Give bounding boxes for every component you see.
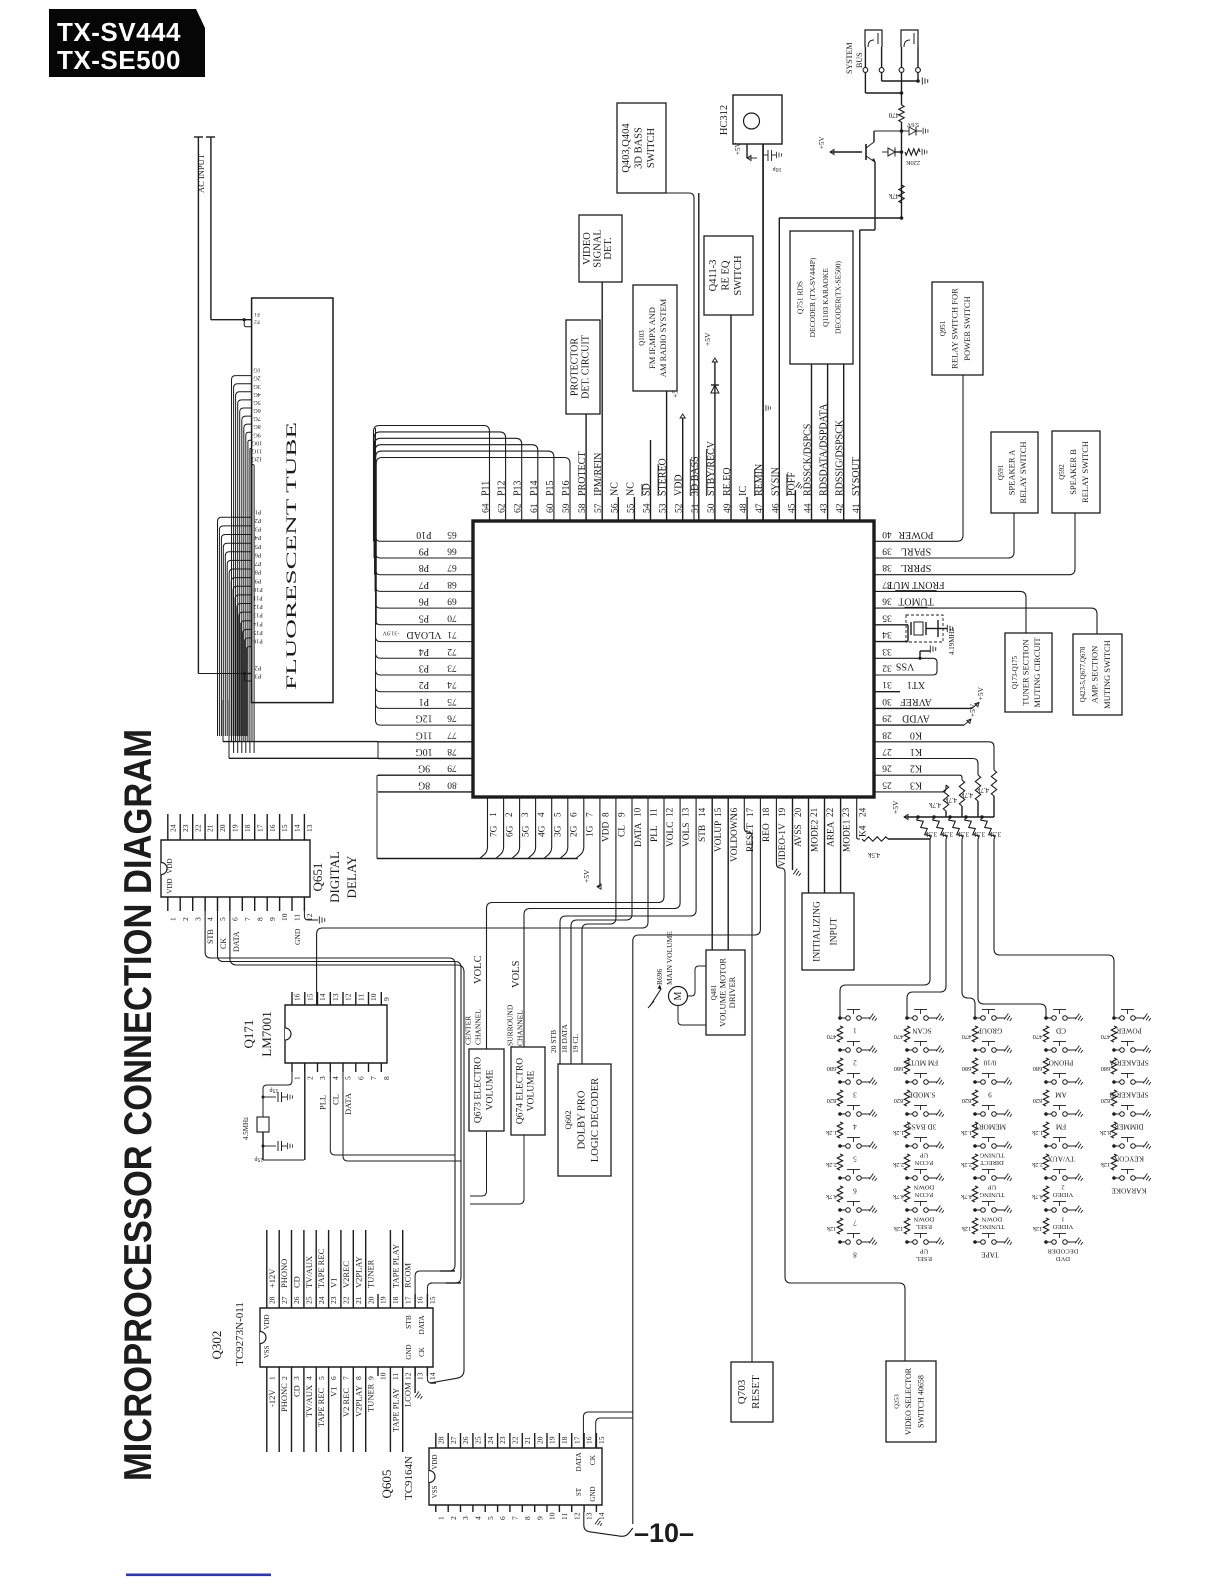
svg-text:Q592: Q592 (1058, 464, 1066, 480)
svg-text:R696: R696 (655, 968, 664, 985)
svg-text:RELAY SWITCH: RELAY SWITCH (1080, 441, 1090, 503)
svg-text:4.7k: 4.7k (1031, 1193, 1043, 1200)
svg-text:P7: P7 (419, 579, 430, 590)
svg-text:19: 19 (379, 1296, 388, 1304)
svg-text:16: 16 (268, 824, 277, 832)
svg-text:23: 23 (841, 807, 851, 817)
svg-text:51: 51 (691, 503, 701, 513)
svg-text:3: 3 (318, 1076, 327, 1080)
svg-text:V2REC: V2REC (341, 1261, 351, 1288)
svg-text:3: 3 (292, 1376, 301, 1380)
svg-text:680: 680 (962, 1065, 972, 1072)
svg-text:18 DATA: 18 DATA (560, 1024, 569, 1053)
svg-text:4: 4 (305, 1376, 314, 1380)
svg-text:76: 76 (447, 713, 457, 723)
svg-text:IPM/RFIN: IPM/RFIN (593, 453, 604, 496)
svg-text:14: 14 (318, 993, 327, 1001)
svg-text:12k: 12k (826, 1225, 837, 1232)
svg-text:TAPE REC: TAPE REC (316, 1387, 326, 1427)
svg-text:Q423-5,Q677,Q678: Q423-5,Q677,Q678 (1079, 646, 1087, 702)
svg-text:5.6V: 5.6V (906, 121, 919, 128)
svg-text:24: 24 (317, 1296, 326, 1304)
svg-text:5: 5 (552, 812, 562, 817)
svg-text:62: 62 (514, 503, 524, 513)
svg-text:34: 34 (882, 629, 892, 639)
svg-text:Q403,Q404: Q403,Q404 (621, 123, 632, 173)
svg-text:9: 9 (988, 1091, 992, 1099)
svg-text:TV/AUX: TV/AUX (304, 1385, 314, 1417)
svg-text:20: 20 (535, 1436, 544, 1444)
svg-text:12: 12 (403, 1372, 412, 1380)
svg-text:24: 24 (486, 1436, 495, 1444)
svg-text:70: 70 (447, 612, 457, 622)
svg-text:TAPE PLAY: TAPE PLAY (390, 1388, 400, 1432)
svg-text:P.CON: P.CON (915, 1159, 934, 1166)
svg-text:6G: 6G (505, 825, 515, 837)
svg-text:23: 23 (498, 1436, 507, 1444)
svg-text:18: 18 (761, 807, 771, 817)
svg-text:4G: 4G (253, 391, 261, 398)
svg-text:6: 6 (231, 917, 240, 921)
svg-text:+5V: +5V (582, 869, 591, 883)
svg-text:12G: 12G (251, 456, 262, 463)
svg-text:P9: P9 (255, 577, 262, 584)
svg-text:820: 820 (1101, 1097, 1111, 1104)
svg-text:8: 8 (255, 917, 264, 921)
svg-text:10: 10 (633, 807, 643, 817)
svg-text:11: 11 (293, 914, 302, 921)
svg-text:2.2k: 2.2k (892, 1161, 904, 1168)
svg-text:V2PLAY: V2PLAY (353, 1385, 363, 1417)
svg-text:STBY/RECV: STBY/RECV (706, 440, 717, 496)
svg-text:21: 21 (809, 807, 819, 817)
svg-text:72: 72 (447, 646, 457, 656)
svg-text:2: 2 (280, 1376, 289, 1380)
svg-text:3G: 3G (253, 383, 261, 390)
svg-text:SWITCH: SWITCH (733, 255, 744, 296)
svg-text:P12: P12 (253, 603, 263, 610)
svg-text:42: 42 (836, 503, 846, 513)
svg-text:21: 21 (354, 1296, 363, 1304)
svg-text:8G: 8G (418, 779, 430, 790)
svg-text:DET.: DET. (603, 237, 614, 259)
svg-text:P1: P1 (419, 696, 430, 707)
svg-text:14: 14 (428, 1372, 437, 1380)
svg-text:1.2k: 1.2k (825, 1129, 837, 1136)
svg-text:GROUP: GROUP (978, 1027, 1002, 1035)
svg-text:TX-SV444: TX-SV444 (57, 17, 181, 47)
svg-text:680: 680 (894, 1065, 904, 1072)
svg-text:K1: K1 (910, 746, 922, 757)
svg-text:470: 470 (888, 111, 899, 119)
svg-text:680: 680 (1033, 1065, 1043, 1072)
svg-text:VOLUME: VOLUME (485, 1069, 495, 1110)
svg-text:12G: 12G (415, 713, 432, 724)
svg-text:33: 33 (882, 646, 892, 656)
svg-text:Q651: Q651 (310, 863, 325, 892)
svg-text:LM7001: LM7001 (259, 1011, 274, 1057)
svg-text:P5: P5 (255, 543, 262, 550)
svg-text:RELAY SWITCH: RELAY SWITCH (1018, 442, 1028, 504)
svg-text:15: 15 (597, 1436, 606, 1444)
svg-text:21: 21 (206, 824, 215, 832)
svg-text:DELAY: DELAY (344, 855, 359, 898)
svg-text:VIDEO-1V: VIDEO-1V (778, 823, 788, 867)
svg-text:STB: STB (206, 929, 215, 944)
svg-text:3D BASS: 3D BASS (634, 127, 645, 169)
svg-text:CK: CK (219, 938, 228, 949)
svg-text:LOGIC DECODER: LOGIC DECODER (590, 1078, 601, 1162)
svg-text:26: 26 (461, 1436, 470, 1444)
svg-text:8: 8 (382, 1076, 391, 1080)
svg-text:18: 18 (391, 1296, 400, 1304)
svg-text:0/10: 0/10 (983, 1059, 996, 1067)
svg-text:54: 54 (643, 503, 653, 513)
svg-text:6: 6 (853, 1187, 857, 1195)
svg-text:6: 6 (568, 812, 578, 817)
svg-text:3.3k: 3.3k (988, 830, 1001, 838)
svg-text:POWER SWITCH: POWER SWITCH (962, 296, 972, 360)
svg-text:UP: UP (919, 1248, 928, 1255)
svg-text:DATA: DATA (232, 931, 241, 952)
svg-text:P12: P12 (497, 480, 508, 496)
svg-text:470: 470 (894, 1033, 904, 1040)
svg-text:45: 45 (787, 503, 797, 513)
svg-text:P.SEL: P.SEL (916, 1223, 932, 1230)
svg-text:V2 REC: V2 REC (341, 1388, 351, 1417)
svg-text:MICROPROCESSOR CONNECTION DI: MICROPROCESSOR CONNECTION DIAGRAM (117, 729, 160, 1481)
svg-text:TV/AUX: TV/AUX (1047, 1155, 1075, 1163)
svg-text:55: 55 (626, 503, 636, 513)
svg-text:AMP. SECTION: AMP. SECTION (1090, 646, 1100, 704)
svg-text:4.7k: 4.7k (928, 801, 941, 809)
svg-text:DVD: DVD (1056, 1255, 1071, 1262)
svg-text:1.2k: 1.2k (1031, 1129, 1043, 1136)
svg-text:P16: P16 (253, 638, 263, 645)
svg-text:73: 73 (447, 663, 457, 673)
svg-text:ST: ST (575, 1487, 583, 1496)
svg-text:SWITCH 40658: SWITCH 40658 (917, 1375, 926, 1428)
svg-text:25: 25 (882, 779, 892, 789)
svg-text:15: 15 (280, 824, 289, 832)
svg-text:8: 8 (354, 1376, 363, 1380)
svg-text:11: 11 (356, 994, 365, 1001)
svg-text:PLL: PLL (650, 825, 660, 842)
svg-text:22: 22 (342, 1296, 351, 1304)
svg-text:17: 17 (745, 807, 755, 817)
svg-text:AM: AM (1055, 1091, 1067, 1099)
svg-text:SYSOUT: SYSOUT (851, 457, 862, 496)
svg-text:3.3k: 3.3k (924, 830, 937, 838)
svg-text:RCOM: RCOM (403, 1263, 413, 1288)
svg-text:80: 80 (447, 779, 457, 789)
svg-text:SPARL: SPARL (901, 546, 931, 557)
svg-text:15: 15 (713, 807, 723, 817)
svg-text:3.3k: 3.3k (972, 830, 985, 838)
svg-text:SPEAKER A: SPEAKER A (1007, 449, 1017, 495)
svg-text:-12V: -12V (267, 1389, 277, 1407)
svg-text:1: 1 (488, 812, 498, 817)
svg-text:RE EQ: RE EQ (721, 260, 732, 290)
svg-text:10: 10 (369, 993, 378, 1001)
svg-text:DIRECT: DIRECT (980, 1159, 1004, 1166)
svg-text:67: 67 (447, 562, 457, 572)
svg-text:2: 2 (853, 1059, 857, 1067)
svg-text:15: 15 (305, 993, 314, 1001)
svg-text:IC: IC (738, 486, 749, 496)
svg-text:2.2k: 2.2k (1031, 1161, 1043, 1168)
svg-text:Q1103 KARAOKE: Q1103 KARAOKE (821, 268, 830, 327)
svg-text:74: 74 (447, 679, 457, 689)
svg-text:HC312: HC312 (719, 105, 730, 135)
svg-text:K4: K4 (859, 825, 869, 837)
svg-text:VOLS: VOLS (511, 960, 522, 988)
svg-text:KARAOKE: KARAOKE (1111, 1187, 1147, 1195)
svg-text:DATA: DATA (417, 1315, 426, 1335)
svg-text:DRIVER: DRIVER (727, 976, 737, 1008)
svg-text:10: 10 (379, 1372, 388, 1380)
svg-text:MODE2: MODE2 (810, 819, 820, 852)
svg-text:SYSTEM: SYSTEM (845, 42, 854, 74)
svg-text:6G: 6G (253, 407, 261, 414)
svg-text:K2: K2 (910, 763, 922, 774)
svg-text:1G: 1G (253, 367, 261, 374)
svg-text:VSS: VSS (431, 1485, 439, 1498)
svg-text:50: 50 (707, 503, 717, 513)
svg-text:52: 52 (675, 503, 685, 513)
svg-text:V1: V1 (329, 1278, 339, 1288)
svg-text:Q951: Q951 (939, 320, 947, 336)
svg-text:16: 16 (416, 1296, 425, 1304)
svg-text:F1: F1 (254, 311, 260, 317)
svg-text:CL: CL (618, 825, 628, 837)
svg-text:P14: P14 (529, 480, 540, 496)
svg-text:VIDEO: VIDEO (582, 232, 593, 265)
svg-text:TUNER SECTION: TUNER SECTION (1021, 639, 1031, 705)
svg-text:INITIALIZING: INITIALIZING (812, 901, 822, 962)
svg-text:470: 470 (1033, 1033, 1043, 1040)
svg-text:19 CL: 19 CL (571, 1034, 580, 1053)
svg-text:Q173-Q175: Q173-Q175 (1011, 655, 1019, 689)
svg-text:38: 38 (882, 562, 892, 572)
svg-text:VSS: VSS (263, 1345, 271, 1358)
svg-text:+12V: +12V (267, 1268, 277, 1288)
svg-text:VIDEO: VIDEO (1053, 1191, 1074, 1198)
svg-text:18: 18 (560, 1436, 569, 1444)
svg-text:15p: 15p (255, 1156, 264, 1162)
svg-text:11: 11 (391, 1373, 400, 1380)
svg-text:3: 3 (193, 917, 202, 921)
svg-text:62: 62 (498, 503, 508, 513)
svg-text:P2: P2 (255, 665, 262, 672)
svg-text:P9: P9 (419, 546, 430, 557)
svg-text:65: 65 (447, 529, 457, 539)
svg-text:4: 4 (206, 917, 215, 921)
svg-text:MAIN VOLUME: MAIN VOLUME (665, 931, 674, 985)
svg-text:56: 56 (610, 503, 620, 513)
svg-text:CD: CD (292, 1385, 302, 1397)
svg-text:3: 3 (520, 812, 530, 817)
svg-text:STB: STB (698, 825, 708, 842)
svg-text:SPEAKER B: SPEAKER B (1068, 449, 1078, 495)
svg-text:77: 77 (447, 729, 457, 739)
svg-text:RDSDATA/DSPDATA: RDSDATA/DSPDATA (819, 403, 830, 496)
svg-text:POWER: POWER (1116, 1027, 1141, 1035)
svg-text:P13: P13 (253, 612, 263, 619)
svg-text:470: 470 (1101, 1033, 1111, 1040)
svg-text:–10–: –10– (634, 1518, 694, 1548)
svg-text:DOWN: DOWN (982, 1216, 1003, 1223)
svg-text:+5V: +5V (968, 703, 977, 717)
svg-text:DOWN: DOWN (914, 1216, 935, 1223)
svg-text:DOWN: DOWN (914, 1184, 935, 1191)
svg-text:RDSSIG/DSPSCK: RDSSIG/DSPSCK (835, 419, 846, 496)
svg-text:7: 7 (584, 812, 594, 817)
svg-text:820: 820 (962, 1097, 972, 1104)
svg-text:16: 16 (585, 1436, 594, 1444)
svg-text:7: 7 (369, 1076, 378, 1080)
svg-text:TAPE REC: TAPE REC (316, 1248, 326, 1288)
svg-text:MUTING CIRCUIT: MUTING CIRCUIT (1032, 637, 1042, 708)
svg-text:FM: FM (1055, 1123, 1066, 1131)
svg-text:3D BASS: 3D BASS (908, 1123, 937, 1131)
svg-text:4: 4 (536, 812, 546, 817)
svg-text:P3: P3 (255, 526, 262, 533)
svg-text:12: 12 (665, 807, 675, 817)
svg-text:REO: REO (762, 823, 772, 842)
svg-text:2: 2 (1061, 1184, 1064, 1191)
svg-text:17: 17 (255, 824, 264, 832)
svg-text:10: 10 (280, 913, 289, 921)
svg-text:AM RADIO SYSTEM: AM RADIO SYSTEM (658, 298, 668, 377)
svg-text:DOLBY PRO: DOLBY PRO (577, 1090, 588, 1149)
svg-text:UP: UP (919, 1152, 928, 1159)
svg-text:220K: 220K (905, 159, 920, 166)
svg-text:13: 13 (331, 993, 340, 1001)
svg-text:20: 20 (218, 824, 227, 832)
svg-text:Q605: Q605 (379, 1470, 394, 1499)
svg-text:27: 27 (449, 1436, 458, 1444)
svg-text:2.2k: 2.2k (825, 1161, 837, 1168)
svg-text:-31.9V: -31.9V (382, 630, 399, 636)
svg-text:30: 30 (882, 696, 892, 706)
svg-text:Q591: Q591 (997, 464, 1005, 480)
svg-text:NC: NC (625, 482, 636, 496)
svg-text:VDD: VDD (166, 878, 174, 893)
svg-text:9: 9 (535, 1516, 544, 1520)
svg-text:VOLC: VOLC (473, 955, 484, 984)
svg-text:2.2k: 2.2k (960, 1161, 972, 1168)
svg-text:48: 48 (739, 503, 749, 513)
svg-text:TAPE: TAPE (981, 1251, 999, 1259)
svg-text:7: 7 (243, 917, 252, 921)
svg-text:POFF: POFF (786, 472, 797, 496)
svg-text:1: 1 (1061, 1216, 1064, 1223)
svg-text:13: 13 (681, 807, 691, 817)
svg-text:46: 46 (771, 503, 781, 513)
svg-text:VOLUME MOTOR: VOLUME MOTOR (718, 958, 728, 1027)
svg-text:1.2k: 1.2k (960, 1129, 972, 1136)
svg-text:1: 1 (436, 1516, 445, 1520)
svg-text:P16: P16 (561, 480, 572, 496)
svg-text:5: 5 (344, 1076, 353, 1080)
svg-text:2G: 2G (253, 375, 261, 382)
svg-text:9: 9 (617, 812, 627, 817)
svg-text:Q703: Q703 (736, 1379, 748, 1404)
svg-text:11: 11 (560, 1513, 569, 1520)
svg-text:POWER: POWER (898, 529, 933, 540)
svg-text:29: 29 (882, 713, 892, 723)
svg-text:22: 22 (511, 1436, 520, 1444)
svg-text:12k: 12k (893, 1225, 904, 1232)
svg-text:14: 14 (293, 824, 302, 832)
svg-text:SWITCH: SWITCH (646, 127, 657, 168)
svg-text:10: 10 (548, 1512, 557, 1520)
svg-text:71: 71 (447, 629, 457, 639)
svg-text:47: 47 (755, 503, 765, 513)
svg-text:16: 16 (293, 993, 302, 1001)
svg-text:14: 14 (697, 807, 707, 817)
svg-text:23: 23 (181, 824, 190, 832)
svg-text:9G: 9G (253, 431, 261, 438)
svg-text:PROTECT: PROTECT (577, 452, 588, 496)
svg-text:TC9164N: TC9164N (403, 1456, 415, 1500)
svg-text:DECODER(TX-SE500): DECODER(TX-SE500) (833, 261, 842, 334)
svg-text:VLOAD: VLOAD (407, 629, 442, 640)
svg-text:VDD: VDD (166, 858, 174, 873)
svg-text:4: 4 (331, 1076, 340, 1080)
svg-text:820: 820 (894, 1097, 904, 1104)
svg-text:64: 64 (482, 503, 492, 513)
svg-text:SURROUND: SURROUND (506, 1004, 515, 1046)
svg-text:2: 2 (449, 1516, 458, 1520)
svg-text:5G: 5G (521, 825, 531, 837)
svg-text:DATA: DATA (634, 823, 644, 847)
svg-text:24: 24 (168, 824, 177, 832)
svg-text:P11: P11 (481, 481, 492, 496)
svg-text:78: 78 (447, 746, 457, 756)
svg-text:2G: 2G (570, 825, 580, 837)
svg-text:26: 26 (882, 763, 892, 773)
svg-text:36: 36 (882, 596, 892, 606)
svg-text:+5V: +5V (976, 686, 985, 700)
svg-text:GND: GND (405, 1344, 413, 1359)
svg-text:7G: 7G (489, 825, 499, 837)
svg-text:P14: P14 (253, 620, 263, 627)
svg-text:470: 470 (827, 1033, 837, 1040)
svg-text:8: 8 (853, 1251, 857, 1259)
svg-text:P6: P6 (419, 596, 430, 607)
svg-text:59: 59 (562, 503, 572, 513)
svg-text:PLL: PLL (318, 1095, 328, 1110)
svg-text:13: 13 (305, 824, 314, 832)
svg-text:28: 28 (267, 1296, 276, 1304)
svg-text:41: 41 (852, 503, 862, 513)
svg-text:P15: P15 (253, 629, 263, 636)
svg-text:6: 6 (498, 1516, 507, 1520)
svg-text:49: 49 (723, 503, 733, 513)
svg-text:40: 40 (882, 529, 892, 539)
svg-text:AVSS: AVSS (794, 824, 804, 847)
svg-text:VOLS: VOLS (682, 823, 692, 847)
svg-text:Q674 ELECTRO: Q674 ELECTRO (515, 1058, 525, 1124)
svg-text:4.5MHz: 4.5MHz (242, 1117, 250, 1140)
svg-text:DET. CIRCUIT: DET. CIRCUIT (581, 335, 592, 399)
svg-text:10G: 10G (251, 439, 262, 446)
svg-text:P6: P6 (255, 551, 262, 558)
svg-text:DECODER (TX-SV444P): DECODER (TX-SV444P) (808, 257, 817, 337)
svg-text:PHONO: PHONO (1049, 1059, 1074, 1067)
